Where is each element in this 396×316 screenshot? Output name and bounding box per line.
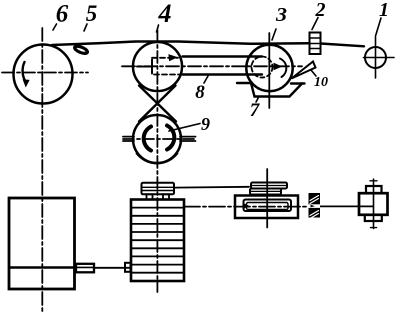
svg-text:7: 7: [250, 100, 261, 121]
svg-text:4: 4: [158, 0, 172, 28]
svg-text:6: 6: [56, 1, 69, 28]
svg-text:5: 5: [86, 1, 98, 26]
svg-text:1: 1: [379, 0, 389, 21]
svg-text:3: 3: [275, 4, 287, 26]
svg-text:8: 8: [195, 82, 205, 103]
svg-text:10: 10: [314, 75, 328, 90]
svg-text:2: 2: [315, 0, 326, 21]
svg-text:9: 9: [201, 114, 210, 134]
